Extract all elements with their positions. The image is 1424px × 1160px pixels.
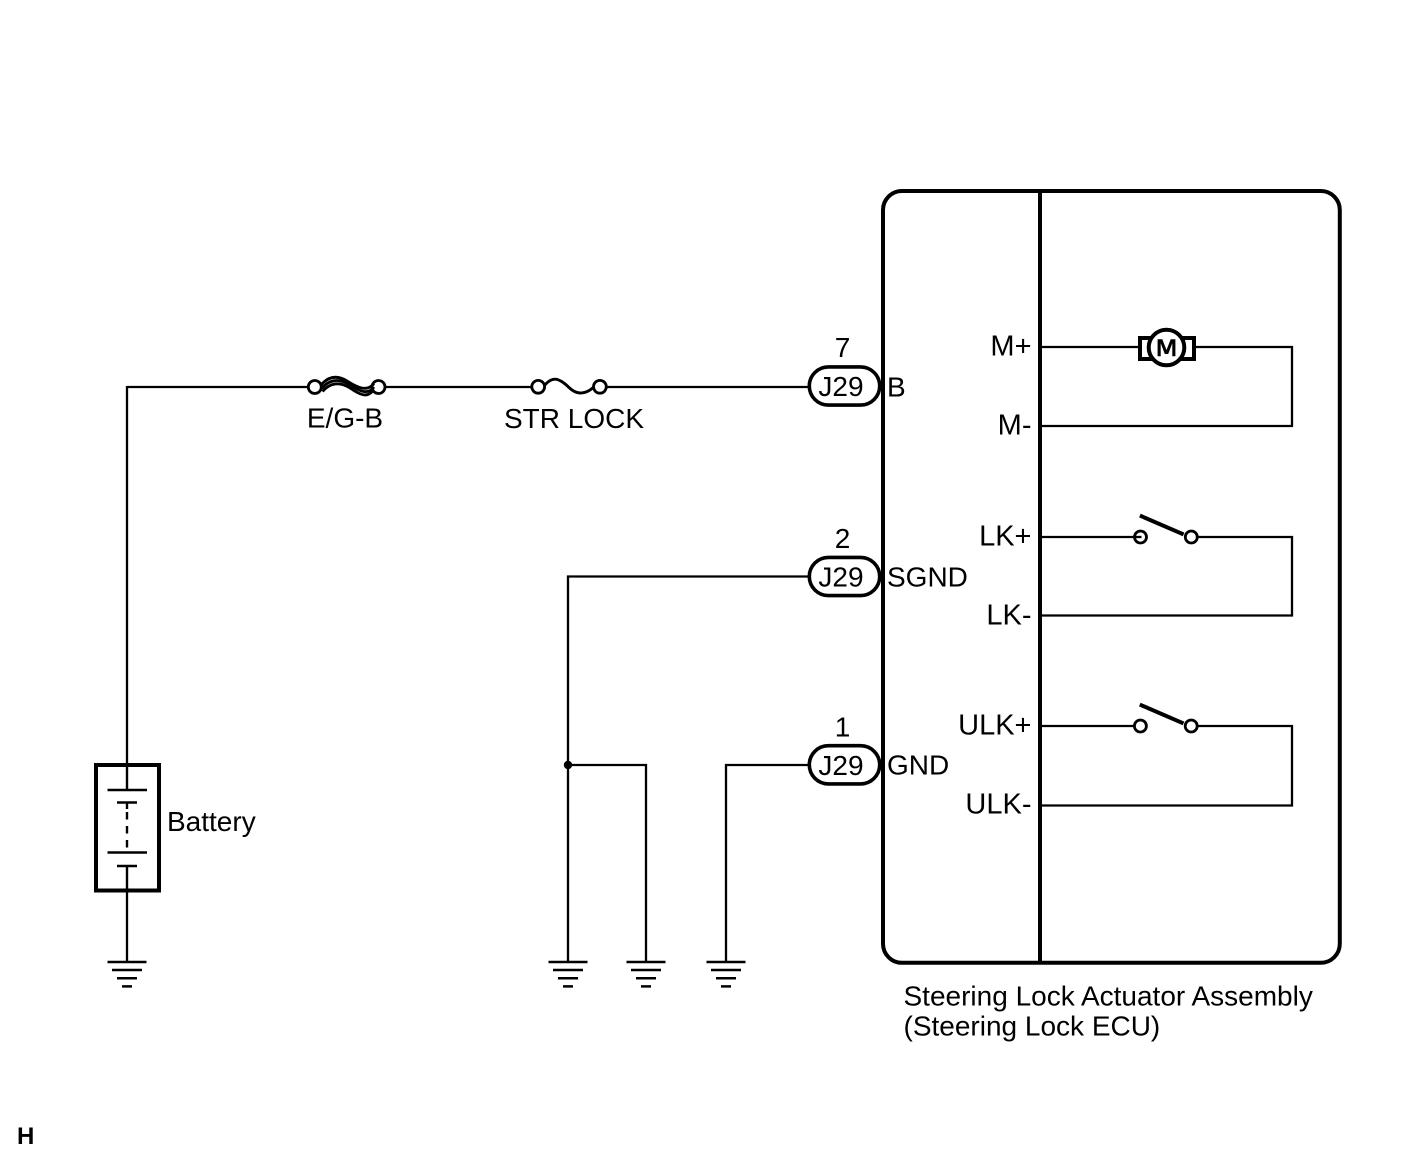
ground (SGND left) xyxy=(549,962,588,986)
svg-text:Battery: Battery xyxy=(167,806,256,837)
svg-text:SGND: SGND xyxy=(887,562,968,593)
svg-text:7: 7 xyxy=(835,332,851,363)
svg-text:E/G-B: E/G-B xyxy=(307,403,383,434)
svg-text:STR LOCK: STR LOCK xyxy=(504,403,644,434)
ground (SGND branch) xyxy=(627,962,666,986)
svg-text:1: 1 xyxy=(835,712,851,743)
svg-text:LK-: LK- xyxy=(986,599,1031,631)
svg-text:B: B xyxy=(887,372,906,403)
wire battery vertical drop xyxy=(126,386,128,765)
battery B1 xyxy=(96,765,159,891)
switch SW1 (LK) xyxy=(1134,516,1197,543)
wire switch loop to LK- xyxy=(1042,537,1292,616)
wire switch loop to ULK- xyxy=(1042,726,1292,806)
svg-text:ULK-: ULK- xyxy=(965,788,1031,820)
wire GND from connector pin 1 to ground xyxy=(726,765,808,962)
fuse STR LOCK xyxy=(532,379,607,393)
svg-text:ULK+: ULK+ xyxy=(958,709,1031,741)
svg-text:M+: M+ xyxy=(990,330,1031,362)
connector J29 pin 1 oval xyxy=(809,746,879,784)
wire SGND from connector to ground run xyxy=(568,577,808,963)
svg-text:M-: M- xyxy=(998,409,1032,441)
wire battery top feed (B+ line to fuse E/G-B) xyxy=(127,386,308,388)
wire LK+ to switch xyxy=(1042,536,1135,538)
svg-text:J29: J29 xyxy=(818,371,863,402)
svg-text:2: 2 xyxy=(835,523,851,554)
switch SW2 (ULK) xyxy=(1134,705,1197,732)
connector J29 pin 2 oval xyxy=(809,557,879,595)
svg-text:LK+: LK+ xyxy=(979,520,1031,552)
wire battery to ground xyxy=(126,888,128,962)
connector J29 pin 7 oval xyxy=(809,367,879,405)
svg-text:J29: J29 xyxy=(818,750,863,781)
ground (battery) xyxy=(108,962,147,986)
Steering Lock Actuator Assembly box xyxy=(883,191,1340,963)
wire motor loop to M- xyxy=(1042,347,1292,426)
wire ULK+ to switch xyxy=(1042,725,1135,727)
svg-text:GND: GND xyxy=(887,750,949,781)
svg-text:Steering Lock Actuator Assembl: Steering Lock Actuator Assembly xyxy=(904,981,1313,1012)
wire between fuses xyxy=(385,386,532,388)
fuse E/G-B (fusible link) xyxy=(308,377,385,395)
ground (GND pin 1) xyxy=(707,962,746,986)
wire SGND branch to second ground xyxy=(568,765,646,962)
motor M1 xyxy=(1140,330,1194,366)
svg-text:(Steering Lock ECU): (Steering Lock ECU) xyxy=(904,1011,1161,1042)
ECU connector divider line xyxy=(1038,191,1042,963)
junction dot node SGND/ground xyxy=(564,761,572,769)
wire fuse to connector J29 pin 7 xyxy=(607,386,808,388)
svg-text:J29: J29 xyxy=(818,562,863,593)
wire M+ to motor xyxy=(1042,346,1140,348)
svg-text:H: H xyxy=(17,1123,34,1150)
